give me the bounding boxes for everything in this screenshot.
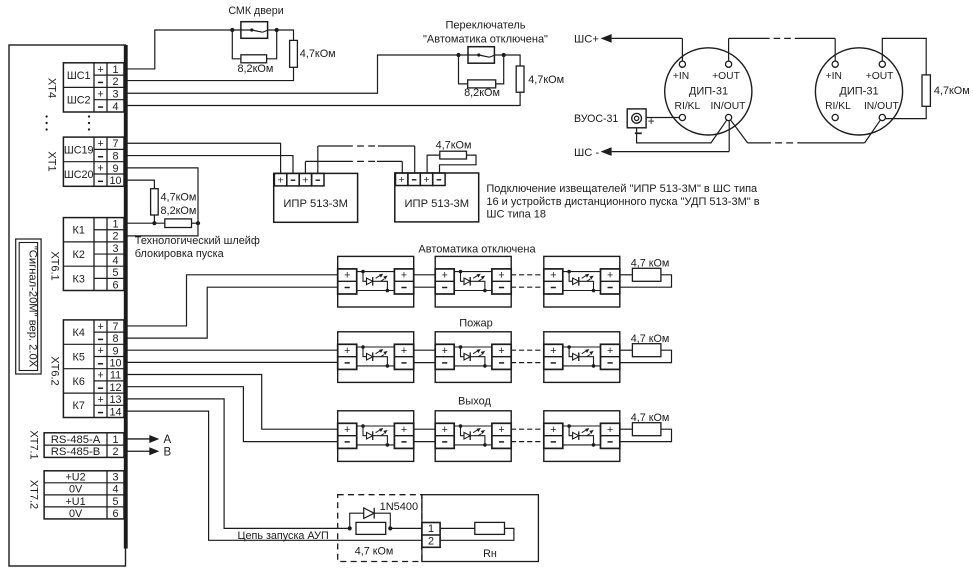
wire ИПР#1 t4 to ИПР#2 t2 (dashed mid) <box>318 146 415 173</box>
node: junction left of switch <box>456 53 460 57</box>
svg-text:Подключение извещателей "ИПР 5: Подключение извещателей "ИПР 513-3М" в Ш… <box>486 183 758 195</box>
diode 1N5400 branch <box>350 508 391 529</box>
svg-text:ХТ6.2: ХТ6.2 <box>49 356 61 385</box>
wire К7 pin14 to АУП terminal 2 <box>124 411 422 540</box>
indicator lamp (Пожар) unit 3 <box>544 332 620 383</box>
wire EOL loop back to unit3 - (Пожар) <box>620 350 672 362</box>
wire EOL loop back to unit3 - (Выход) <box>620 429 672 441</box>
svg-text:9: 9 <box>112 163 118 175</box>
svg-text:2: 2 <box>112 231 118 243</box>
svg-text:3: 3 <box>112 472 118 484</box>
wire unit3 to EOL resistor (Выход) <box>620 428 633 430</box>
svg-text:0V: 0V <box>69 508 83 520</box>
wire unit1-unit2 (Автоматика отключена) <box>414 275 436 287</box>
wire ВУОС-31 + to RI/KL#1 <box>646 117 679 119</box>
svg-text:+: + <box>97 345 103 357</box>
svg-text:ХТ1: ХТ1 <box>46 151 58 171</box>
svg-text:11: 11 <box>110 370 121 382</box>
resistor 4,7 кОм (Пожар EOL) <box>632 344 661 357</box>
svg-text:К7: К7 <box>73 400 85 412</box>
svg-text:14: 14 <box>109 406 121 418</box>
svg-text:4,7кОм: 4,7кОм <box>300 48 336 60</box>
resistor 8,2кОм (technological loop) <box>165 219 192 228</box>
terminal block XT1 ШС19/ШС20 (pins 7-10) <box>63 137 124 187</box>
svg-text:ХТ7.2: ХТ7.2 <box>28 480 40 509</box>
svg-text:+: + <box>423 175 429 186</box>
wire ШС19- pin8 to ИПР#1 t2 <box>124 156 293 174</box>
dashed box (launch circuit) <box>338 495 422 562</box>
svg-text:4,7 кОм: 4,7 кОм <box>355 545 394 557</box>
wire ВУОС-31 - to IN/OUT#1 (diagonal) <box>637 120 727 143</box>
svg-text:0V: 0V <box>69 484 83 496</box>
wire unit1-unit2 (Выход) <box>414 429 436 441</box>
svg-text:ДИП-31: ДИП-31 <box>689 86 728 98</box>
wire 4,7кОм to ШС1- pin2 <box>124 67 294 80</box>
wire ШС- with arrow up to IN/OUT#1 <box>601 121 730 156</box>
svg-text:8,2кОм: 8,2кОм <box>161 205 197 217</box>
svg-text:+U2: +U2 <box>65 472 85 484</box>
svg-text:10: 10 <box>109 358 121 370</box>
wire К7 pin13 to АУП circuit <box>124 399 350 529</box>
wire К4 pin7 to Автоматика row + <box>124 275 338 326</box>
svg-text:4: 4 <box>112 484 118 496</box>
svg-text:+OUT: +OUT <box>712 71 740 82</box>
svg-text:+: + <box>97 394 103 406</box>
svg-text:4: 4 <box>112 101 118 113</box>
wire parallel branch down-left <box>232 30 241 59</box>
resistor 4,7 кОм (Автоматика отключена EOL) <box>632 268 661 281</box>
resistor 8,2кОм (switch shunt) <box>468 80 496 88</box>
svg-text:+OUT: +OUT <box>866 71 894 82</box>
resistor 4,7кОм (ИПР EOL) <box>440 151 467 159</box>
svg-text:ХТ4: ХТ4 <box>46 78 58 98</box>
wire ИПР#1 t3 to ИПР#2 t1 (dashed mid) <box>305 161 402 173</box>
svg-text:+: + <box>97 370 103 382</box>
panel Сигнал-20М outline <box>9 45 128 566</box>
wire +OUT#1 up and right (dashed mid) to +IN#2 <box>729 38 836 61</box>
wire unit3 to EOL resistor (Автоматика отключена) <box>620 274 633 276</box>
svg-text:Выход: Выход <box>458 395 491 407</box>
svg-text:ХТ7.1: ХТ7.1 <box>28 430 40 459</box>
indicator lamp (Автоматика отключена) unit 2 <box>435 256 511 307</box>
svg-text:12: 12 <box>109 382 121 394</box>
svg-text:К1: К1 <box>73 225 85 237</box>
wire Rн loop to terminal 2 <box>440 528 514 540</box>
svg-text:Технологический шлейф: Технологический шлейф <box>135 235 260 247</box>
wire К4 pin8 to Автоматика row - <box>124 287 338 338</box>
svg-text:8: 8 <box>112 150 118 162</box>
resistor 4,7кОм (technological loop) <box>151 189 159 215</box>
manual call point ИПР 513-3М #1 <box>274 173 358 222</box>
node: junction right of СМК <box>275 28 279 32</box>
wire К1 pin1 to 8,2кОм <box>124 222 165 224</box>
load box АУП <box>422 495 539 562</box>
svg-text:9: 9 <box>112 345 118 357</box>
wire terminal 1 to Rн <box>440 527 475 529</box>
svg-text:3: 3 <box>112 243 118 255</box>
svg-text:блокировка пуска: блокировка пуска <box>135 248 225 260</box>
svg-text:IN/OUT: IN/OUT <box>711 101 747 112</box>
wire 8,2кОм to right junction <box>192 222 199 224</box>
svg-text:К5: К5 <box>73 351 85 363</box>
svg-text:4,7кОм: 4,7кОм <box>436 139 472 151</box>
svg-text:7: 7 <box>112 321 118 333</box>
svg-text:1: 1 <box>112 434 118 446</box>
svg-text:ШС1: ШС1 <box>67 70 91 82</box>
indicator lamp (Выход) unit 1 <box>338 411 414 462</box>
wire junction to 4,7кОм resistor <box>277 30 294 40</box>
terminal block XT4 ШС1/ШС2 (pins 1-4) <box>63 63 124 113</box>
svg-text:5: 5 <box>112 496 118 508</box>
wire К6 pin12 to Выход row - <box>124 387 338 442</box>
wire ШС20- pin10 to 4,7кОм <box>124 180 154 189</box>
terminal block XT7.2 power (pins 3-6) <box>44 471 124 520</box>
svg-text:6: 6 <box>112 279 118 291</box>
manual call point ИПР 513-3М #2 <box>395 173 479 222</box>
wire RS-485-B with arrow to node B <box>124 447 172 459</box>
terminal block АУП pins 1/2 <box>422 523 440 548</box>
svg-text:ШС20: ШС20 <box>64 169 94 181</box>
svg-text:К2: К2 <box>73 249 85 261</box>
wire EOL resistor to ИПР#2 t4 <box>440 155 477 173</box>
wire +OUT#2 to EOL resistor <box>882 38 926 75</box>
indicator lamp (Автоматика отключена) unit 3 <box>544 256 620 307</box>
indicator lamp (Автоматика отключена) unit 1 <box>338 256 414 307</box>
svg-text:8,2кОм: 8,2кОм <box>464 87 500 99</box>
node: junction at 4,7кОм/К1.1 <box>152 221 156 225</box>
wire 4,7кОм to ШС2- pin4 <box>124 92 520 105</box>
svg-text:RS-485-B: RS-485-B <box>51 446 101 458</box>
indicator ВУОС-31 <box>574 109 655 133</box>
svg-text:К4: К4 <box>73 327 85 339</box>
svg-text:ИПР 513-3М: ИПР 513-3М <box>405 198 470 210</box>
wire unit3 to EOL resistor (Пожар) <box>620 349 633 351</box>
wire ШС19+ pin7 to ИПР#1 t1 <box>124 143 281 173</box>
terminal block XT6.2 К4-К7 (pins 7-14) <box>63 320 124 418</box>
svg-text:4: 4 <box>112 255 118 267</box>
svg-text:8: 8 <box>112 333 118 345</box>
ellipsis between terminal blocks <box>45 115 90 130</box>
svg-text:+: + <box>399 175 405 186</box>
svg-text:13: 13 <box>109 394 121 406</box>
resistor 4,7 кОм (АУП) <box>356 522 386 534</box>
svg-text:8,2кОм: 8,2кОм <box>237 63 273 75</box>
svg-text:"Сигнал-20М" вер. 2.0Х: "Сигнал-20М" вер. 2.0Х <box>27 246 39 368</box>
svg-text:СМК двери: СМК двери <box>228 5 283 17</box>
switch СМК двери (door contact) <box>232 22 276 39</box>
node: junction right of switch <box>502 53 506 57</box>
resistor 4,7кОм (ШС1 EOL) <box>290 40 298 67</box>
svg-text:Цепь запуска АУП: Цепь запуска АУП <box>238 530 329 542</box>
smoke detector ДИП-31 #2 <box>815 48 902 135</box>
svg-text:+: + <box>97 64 103 76</box>
resistor 4,7 кОм (Выход EOL) <box>632 423 661 436</box>
svg-text:ШС19: ШС19 <box>64 144 94 156</box>
svg-text:+: + <box>97 88 103 100</box>
wire К1 pin2 up to junction <box>124 223 198 236</box>
wire parallel branch up-right <box>496 55 504 84</box>
node: junction right <box>196 221 200 225</box>
svg-text:5: 5 <box>112 267 118 279</box>
svg-text:+: + <box>97 321 103 333</box>
resistor Rн <box>475 522 505 534</box>
wire ШС20+ pin9 down to loop junction <box>124 168 198 223</box>
wire to АУП terminal 1 <box>390 527 422 529</box>
wire К6 pin11 to Выход row + <box>124 375 338 430</box>
switch "Автоматика отключена" <box>459 47 504 64</box>
svg-text:+: + <box>97 138 103 150</box>
svg-text:3: 3 <box>112 88 118 100</box>
svg-text:ВУОС-31: ВУОС-31 <box>574 113 618 125</box>
indicator lamp (Пожар) unit 1 <box>338 332 414 383</box>
resistor 8,2кОм (СМК shunt) <box>241 55 267 63</box>
svg-text:7: 7 <box>112 138 118 150</box>
terminal block XT6.1 К1-К3 (pins 1-6) <box>63 218 124 292</box>
wire К5 pin10 to Пожар row - <box>124 361 338 363</box>
svg-text:ШС -: ШС - <box>574 147 599 159</box>
indicator lamp (Выход) unit 2 <box>435 411 511 462</box>
svg-text:4,7кОм: 4,7кОм <box>934 85 970 97</box>
svg-text:RI/KL: RI/KL <box>675 101 701 112</box>
svg-text:IN/OUT: IN/OUT <box>864 101 900 112</box>
svg-text:Rн: Rн <box>483 548 497 560</box>
wire ШС2+ pin3 to switch loop <box>124 55 459 93</box>
svg-text:"Автоматика отключена": "Автоматика отключена" <box>423 33 548 45</box>
node: junction right of 4,7 кОм <box>388 526 392 530</box>
wire parallel branch down-left <box>459 55 468 84</box>
wire EOL loop back to unit3 - (Автоматика отключена) <box>620 275 672 287</box>
node: junction left of СМК <box>230 28 234 32</box>
wire junction to 4,7кОм resistor <box>504 55 520 66</box>
wire unit2-unit3 dashed (Автоматика отключена) <box>511 275 544 287</box>
svg-text:RI/KL: RI/KL <box>825 101 851 112</box>
svg-text:ДИП-31: ДИП-31 <box>839 86 878 98</box>
wire unit2-unit3 dashed (Выход) <box>511 429 544 441</box>
wire 4,7кОм bottom to К1 pin1 wire <box>153 215 155 223</box>
smoke detector ДИП-31 #1 <box>665 48 752 135</box>
svg-text:2: 2 <box>112 76 118 88</box>
svg-text:A: A <box>164 434 172 446</box>
wire parallel branch up-right <box>267 30 277 59</box>
svg-text:6: 6 <box>112 508 118 520</box>
svg-text:ШС+: ШС+ <box>574 33 599 45</box>
terminal block XT7.1 RS-485 (pins 1-2) <box>44 433 124 458</box>
wire ШС+ with arrow <box>601 34 683 61</box>
svg-text:1N5400: 1N5400 <box>380 501 419 513</box>
svg-text:10: 10 <box>109 175 121 187</box>
svg-text:ХТ6.1: ХТ6.1 <box>49 251 61 280</box>
resistor 4,7кОм (ШС EOL at last ДИП-31) <box>922 75 930 106</box>
wire К5 pin9 to Пожар row + <box>124 349 338 351</box>
svg-text:1: 1 <box>112 219 118 231</box>
note text Технологический шлейф <box>135 235 260 260</box>
svg-text:1: 1 <box>112 64 118 76</box>
wire RS-485-A with arrow to node A <box>124 434 172 446</box>
wire IN/OUT#1 diagonal to ШС- continuation (dashed mid) to IN/OUT#2 <box>731 120 880 143</box>
svg-text:16 и устройств дистанционного: 16 и устройств дистанционного пуска "УДП… <box>486 196 759 208</box>
svg-text:RS-485-A: RS-485-A <box>51 434 101 446</box>
wire EOL resistor to IN/OUT#2 <box>886 106 927 118</box>
svg-text:+IN: +IN <box>826 71 842 82</box>
svg-text:4,7кОм: 4,7кОм <box>161 192 197 204</box>
indicator lamp (Выход) unit 3 <box>544 411 620 462</box>
svg-text:2: 2 <box>112 446 118 458</box>
svg-text:+: + <box>302 175 308 186</box>
wire unit2-unit3 dashed (Пожар) <box>511 350 544 362</box>
svg-text:2: 2 <box>428 535 434 547</box>
wire ИПР#2 t3 to EOL resistor <box>427 155 440 173</box>
svg-text:+: + <box>97 163 103 175</box>
wire unit1-unit2 (Пожар) <box>414 350 436 362</box>
node: junction left of 4,7 кОм <box>348 526 352 530</box>
panel name plate "Сигнал-20М" вер. 2.0Х <box>16 239 41 374</box>
svg-text:+: + <box>278 175 284 186</box>
svg-text:B: B <box>164 447 172 459</box>
note text about ИПР/УДП connection <box>486 183 759 221</box>
svg-text:К6: К6 <box>73 376 85 388</box>
svg-text:4,7кОм: 4,7кОм <box>528 74 564 86</box>
svg-text:Переключатель: Переключатель <box>445 19 525 31</box>
svg-text:+U1: +U1 <box>65 496 85 508</box>
svg-text:ШС2: ШС2 <box>67 95 91 107</box>
svg-text:ИПР 513-3М: ИПР 513-3М <box>283 198 348 210</box>
resistor 4,7кОм (ШС2 EOL) <box>516 66 524 92</box>
svg-text:Автоматика отключена: Автоматика отключена <box>418 243 536 255</box>
svg-text:1: 1 <box>428 523 434 535</box>
svg-text:К3: К3 <box>73 273 85 285</box>
indicator lamp (Пожар) unit 2 <box>435 332 511 383</box>
svg-text:ШС типа 18: ШС типа 18 <box>486 209 546 221</box>
wire ШС1+ pin1 to СМК loop <box>124 30 232 69</box>
svg-text:+IN: +IN <box>673 71 689 82</box>
svg-text:Пожар: Пожар <box>459 317 493 329</box>
